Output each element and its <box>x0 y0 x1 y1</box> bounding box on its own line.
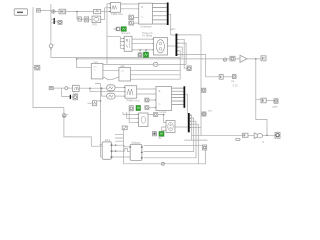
wire loop vertical x=123.5 <box>124 130 206 164</box>
wire T1 to BB1 <box>101 10 111 12</box>
goto tag TG1 <box>187 66 191 71</box>
constant block C1 <box>37 9 41 12</box>
wire BAR1 output down to BAR2 <box>169 14 176 35</box>
excitation block B7 <box>139 113 148 127</box>
wire collector vertical x=180.2 <box>179 58 181 80</box>
svg-text:PWM Gen: PWM Gen <box>111 12 124 16</box>
wire B7 input rails <box>123 111 139 122</box>
block B6 <box>274 99 278 104</box>
wire clock stub <box>113 28 116 30</box>
svg-text:Universal: Universal <box>141 24 152 28</box>
wire BAR4 out3 rail <box>144 121 197 158</box>
wire M1 to S2 <box>55 21 58 23</box>
wire L out1 through E1 <box>103 64 186 66</box>
input arrows M2B <box>153 39 154 51</box>
goto tag TAG4a <box>202 88 206 92</box>
wire TB2 to BAR3 (6 lines) <box>172 88 184 104</box>
wire BAR4 out1 rail <box>184 115 207 140</box>
wire BAR2 out e to T3 <box>177 55 219 77</box>
svg-text:Scope1: Scope1 <box>122 31 131 35</box>
manual switch CC1 <box>223 58 226 61</box>
wire drop to BB2 mid input <box>90 88 125 92</box>
block T3 <box>219 75 223 80</box>
svg-text:abc: abc <box>121 64 126 68</box>
bus creator BAR2 <box>176 34 178 56</box>
arrowheads BAR4 outputs <box>190 115 191 128</box>
wire R outputs (3 lines) <box>131 70 181 79</box>
wire machine cluster inner stubs <box>162 127 167 131</box>
wire BAR2 out d <box>177 51 180 58</box>
svg-text:Subsys: Subsys <box>132 141 141 145</box>
wire M2B to BAR2 <box>168 45 176 47</box>
name tag under BK1 <box>236 138 240 140</box>
scope block S2 <box>58 21 62 25</box>
svg-text:0.15: 0.15 <box>233 84 239 88</box>
wire L out3 S-bend to R <box>103 77 119 79</box>
sum junction J4 <box>65 87 68 90</box>
wire rail x=199.8 down <box>200 35 202 135</box>
wire B5 to B6 <box>266 100 274 102</box>
wire BAR4 out2 rail <box>144 118 194 151</box>
scope GS2 (green) <box>136 106 141 111</box>
scope BK2 <box>275 132 280 138</box>
subsystem block R <box>119 68 131 81</box>
svg-text:gain: gain <box>273 105 278 109</box>
repeating sequence E3 <box>107 93 115 99</box>
svg-text:DC1: DC1 <box>105 138 111 142</box>
wire BAR2 out a to rail x=199.8 <box>177 34 201 36</box>
wire junction drop to B1 <box>77 12 78 20</box>
PID block T2 <box>92 16 101 23</box>
wire G1 to T1 <box>66 11 94 13</box>
wire elbow into subsystem R1 <box>100 143 103 145</box>
wire rail x=100.5 down to R1 <box>95 84 102 157</box>
wire SB3 SB4 to TB2 <box>149 100 156 107</box>
transfer fcn T1 <box>94 9 101 13</box>
input arrows BB2 <box>124 87 125 97</box>
wire rail x=107 to BB1 and VI <box>107 4 120 65</box>
wire B1 to B2 <box>81 18 84 20</box>
source block SB2 <box>129 21 134 25</box>
goto tag TAG6 <box>203 145 207 150</box>
wire rail x=255.8 down to B5 <box>256 59 261 100</box>
block BK1 <box>243 133 249 137</box>
integrator INT <box>73 85 80 91</box>
svg-text:Univ2: Univ2 <box>160 110 167 114</box>
subsystem block L <box>91 64 103 79</box>
wire drop x=76.7 into block L <box>77 59 92 68</box>
wire E2 to BB2 <box>115 87 125 89</box>
svg-text:Disc: Disc <box>73 91 79 95</box>
display block WB2 <box>129 106 133 111</box>
wire BAR2 out c <box>177 43 186 65</box>
wire R1 to R2 connectors <box>112 145 130 157</box>
display SG <box>153 132 157 136</box>
wire stub to feedback tag <box>33 67 35 69</box>
wire drop to E3 <box>102 88 107 96</box>
saturation block SAT5 <box>122 126 127 130</box>
gain triangle TR1 <box>240 55 247 62</box>
wire B6 branch down to bottom line <box>256 100 267 136</box>
clock block CK1 <box>116 27 120 31</box>
wire VI input stubs <box>120 38 124 48</box>
mini mux M1 <box>54 18 55 24</box>
gain block G1 <box>59 9 66 14</box>
block T4 <box>233 75 237 79</box>
input arrows B7 <box>138 114 139 123</box>
universal bridge TB2 <box>156 87 172 111</box>
block S4 <box>93 101 97 106</box>
asynchronous machine M2B <box>154 38 168 56</box>
source block SB4 <box>145 106 149 110</box>
wire drop to WB <box>139 50 141 53</box>
bus creator BAR4 <box>188 113 190 132</box>
AC source E1 <box>153 62 158 66</box>
svg-text:Ctrl: Ctrl <box>94 60 98 64</box>
wire rail x=58.7 down to bottom row <box>64 108 102 147</box>
tiny gray labels <box>73 12 278 144</box>
PWM generator BB1 <box>111 3 121 13</box>
mux BAR3 <box>184 86 186 108</box>
source block SB3 <box>145 98 149 102</box>
wire drop to scope GS4 <box>145 50 147 52</box>
goto tag on feedback rail <box>35 65 40 70</box>
mini mux M2 <box>70 95 71 99</box>
svg-text:m: m <box>262 141 264 144</box>
display block WB <box>138 53 142 57</box>
wire S4 output to rail <box>97 100 101 102</box>
constant SG1 <box>49 87 53 90</box>
wire T2 elbow to BB1 <box>101 8 111 20</box>
wire machine MB to BAR4 <box>175 126 188 128</box>
wire bus line row3 y=57.5 <box>51 57 180 59</box>
wire tag6 stub <box>144 145 203 147</box>
wire rail x=50.9 <box>50 4 52 58</box>
wire BAR2 out f <box>177 47 182 58</box>
wire M2 to S3 <box>71 96 73 98</box>
goto tag TAG4b <box>202 112 206 116</box>
sum block S1 <box>52 10 55 13</box>
input arrows BB1 <box>109 3 110 12</box>
PWM generator BB2 <box>125 86 137 99</box>
wire feedback rail x=33 <box>33 7 64 108</box>
svg-text:V-I Meas: V-I Meas <box>142 33 153 37</box>
wire junction to INT <box>67 87 72 89</box>
block B2 <box>84 17 88 22</box>
wire INT output to E2 <box>79 87 107 89</box>
measurement block VI <box>124 36 132 51</box>
scope GS4 (green) <box>144 52 149 57</box>
wire TB1 to BAR1 (6 lines) <box>153 4 167 25</box>
wire T3 to T4 <box>223 76 232 78</box>
wire bus line row3 y=58.9 with selector chain <box>77 58 261 60</box>
wire BAR4 out4 rail to ground line <box>190 124 199 164</box>
ammeter A1 on rail <box>49 44 54 50</box>
synchronous machine MB <box>166 121 175 133</box>
block B1 <box>78 17 81 21</box>
wire VI to M2B (3 lines) <box>132 39 154 50</box>
arrowheads BAR2 outputs <box>178 34 179 55</box>
wire junction down to mini mux M2 <box>62 88 70 96</box>
repeating sequence E2 <box>107 85 115 91</box>
wire B2 to T2 <box>89 18 93 20</box>
source block SB1 <box>129 15 134 19</box>
wire bottom measurement line y=135.3 <box>192 134 276 136</box>
scope GS3 (green) <box>159 132 164 137</box>
svg-text:PWM Gen2: PWM Gen2 <box>127 99 141 103</box>
wire stubs into mini mux M1 <box>51 19 54 23</box>
block B5 <box>261 98 266 103</box>
block D1 <box>230 56 235 61</box>
wire SG1 to sum junction <box>53 87 65 89</box>
wire SB1 SB2 to TB1 <box>133 17 138 23</box>
mux BAR1 <box>167 3 169 26</box>
scope S3 <box>73 95 78 100</box>
selector funnel FN1 <box>254 133 262 138</box>
wire E3 to BB2 <box>115 95 125 97</box>
wire BAR3 to BAR4 <box>185 94 187 113</box>
wire BB2 to TB2 (2 lines) <box>137 89 156 94</box>
wire BAR2 out b to tag TG1 <box>177 39 187 68</box>
ground G0 <box>162 162 165 165</box>
DC source A2 on rail <box>62 114 68 118</box>
wire stub to S4 <box>88 102 93 104</box>
wire BAR4 out5 to rail <box>190 126 201 128</box>
input arrows VI <box>123 38 124 49</box>
svg-text:PID: PID <box>93 22 97 26</box>
powergui block P1 <box>14 9 27 16</box>
block D2 <box>261 56 266 61</box>
subsystem R2 <box>130 144 143 160</box>
wire C1 to rail <box>40 9 51 11</box>
svg-text:<sel>: <sel> <box>169 27 176 31</box>
wire BB1 to TB1 (2 lines) <box>121 4 139 9</box>
wire clock line to machine cluster <box>148 115 166 123</box>
wire S1 to G1 <box>55 11 59 13</box>
wire stubs left of loop <box>115 135 124 142</box>
scope GS1 (green) <box>121 27 126 32</box>
universal bridge TB1 <box>139 3 153 24</box>
clock block CLK5 <box>153 113 157 117</box>
svg-text:out: out <box>208 108 212 112</box>
wire L out2 to R <box>103 69 119 71</box>
subsystem R1 <box>102 142 112 160</box>
